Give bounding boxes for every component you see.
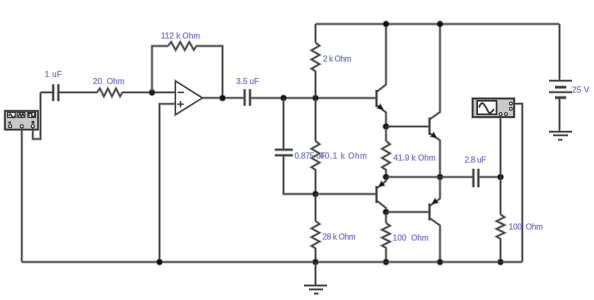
capacitor C3 0.875 uF (275, 150, 293, 156)
resistor R2 112 k Ohm feedback (168, 42, 196, 50)
junction: node B (312, 190, 320, 198)
wire: feedback right riser to output node (196, 46, 223, 98)
junction: ground rail at R7 (382, 258, 390, 266)
label R5: 28 k Ohm (323, 232, 356, 241)
svg-text:1 uF: 1 uF (45, 70, 62, 79)
svg-text:112 k Ohm: 112 k Ohm (161, 32, 200, 41)
wire: op-amp non-inverting input to ground rail (160, 104, 176, 262)
wire: R6 to mid node (385, 169, 388, 177)
op-amp U1 (176, 81, 203, 114)
resistor R8 100 Ohm load (497, 215, 505, 239)
wire: emitter output node to C4 (440, 176, 473, 179)
junction: emitter output node (436, 173, 444, 181)
transistor Q2 NPN (430, 24, 441, 177)
wire: C4 to scope node (478, 176, 500, 179)
label R7: 100 Ohm (393, 234, 429, 243)
junction: scope node (497, 173, 505, 181)
resistor R1 20 Ohm (97, 88, 122, 96)
wire: Q3 collector node to Q4 base (386, 211, 430, 214)
transistor Q3 PNP (377, 177, 387, 212)
resistor R6 41.9 k Ohm (382, 141, 390, 170)
label C1: 1 uF (45, 70, 62, 79)
function generator XFG1 (5, 111, 38, 130)
wire: C2 to Q1 base (250, 97, 377, 100)
label R1: 20 Ohm (93, 77, 125, 86)
wire: input row to C1 (41, 91, 54, 94)
wire: R7 to ground rail (385, 248, 388, 263)
wire: node B down to R5 (314, 194, 317, 221)
wire: scope right terminal to ground rail (514, 104, 522, 262)
wire: FG common terminal to ground rail (20, 128, 23, 262)
label V1: 25 V (572, 85, 590, 94)
ground symbol GND1 (304, 262, 327, 294)
label R4: 40.1 k Ohm (320, 152, 367, 161)
resistor R3 2 k Ohm (312, 43, 320, 72)
label C3: 0.875 uF (295, 152, 326, 161)
wire: R3 to signal node (314, 71, 317, 98)
resistor R5 28 k Ohm (312, 221, 320, 248)
wire: R1 to op-amp inverting input (122, 91, 176, 94)
junction: node at R3/R4 tap (312, 94, 320, 102)
label C4: 2.8 uF (465, 155, 487, 164)
svg-text:2 k Ohm: 2 k Ohm (323, 54, 352, 63)
wire: rail down to R3 (314, 24, 317, 43)
wire: R5 to ground rail (314, 248, 317, 262)
resistor R4 40.1 k Ohm (312, 141, 320, 170)
resistor R7 100 Ohm (382, 223, 390, 248)
transistor Q4 PNP (430, 177, 441, 262)
wire: mid node to emitter output node (386, 176, 440, 179)
label C2: 3.5 uF (236, 77, 259, 86)
svg-text:3.5 uF: 3.5 uF (236, 77, 259, 86)
wire: C3 top riser (282, 98, 285, 149)
junction: ground rail at Q4 collector (436, 258, 444, 266)
wire: scope probe down to scope node (499, 117, 502, 177)
svg-text:0.875 uF: 0.875 uF (295, 152, 326, 161)
svg-text:25 V: 25 V (572, 85, 590, 94)
label R2: 112 k Ohm (161, 32, 200, 41)
wire: R8 to ground rail (499, 239, 502, 263)
svg-text:20 Ohm: 20 Ohm (93, 77, 125, 86)
wire: Q1 emitter node to Q2 base (386, 125, 430, 128)
capacitor C2 3.5 uF (245, 89, 250, 106)
junction: ground rail at R5 (312, 258, 320, 266)
wire: FG minus terminal jog up to input row (33, 92, 41, 139)
junction: Q1 emitter node (382, 123, 390, 131)
wire: feedback left riser (152, 46, 168, 92)
transistor Q1 NPN (377, 24, 387, 127)
wire: op-amp output to C2 (202, 96, 244, 99)
wire: scope node down to R8 (499, 177, 502, 215)
wire: bottom ground rail (22, 261, 523, 264)
junction: top rail at Q1 collector (382, 20, 390, 28)
label R8: 100 Ohm (509, 222, 543, 231)
junction: Q3 collector node (382, 208, 390, 216)
battery V1 25 V (549, 24, 572, 132)
wire: R4 to node B (314, 169, 317, 194)
junction: output node (219, 94, 227, 102)
junction: ground rail at R8 (497, 258, 505, 266)
capacitor C1 1 uF (53, 84, 58, 101)
svg-text:100 Ohm: 100 Ohm (509, 222, 543, 231)
junction: node at C3 tap (280, 94, 288, 102)
junction: ground rail at op-amp leg (156, 258, 164, 266)
label R6: 41.9 k Ohm (394, 154, 436, 163)
svg-text:40.1 k Ohm: 40.1 k Ohm (320, 152, 367, 161)
svg-text:100 Ohm: 100 Ohm (393, 234, 429, 243)
wire: signal node down to R4 (314, 98, 317, 141)
svg-text:41.9 k Ohm: 41.9 k Ohm (394, 154, 436, 163)
wire: C3 bottom to node B (284, 156, 316, 194)
capacitor C4 2.8 uF (473, 169, 478, 187)
svg-text:28 k Ohm: 28 k Ohm (323, 232, 356, 241)
wire: top supply rail (316, 23, 560, 26)
junction: inverting input node (148, 89, 156, 97)
junction: mid node (382, 173, 390, 181)
junction: top rail at Q2 collector (436, 20, 444, 28)
ground symbol GND2 (549, 132, 572, 140)
wire: node B to Q3 base (316, 193, 377, 196)
wire: node down to R7 (385, 212, 388, 223)
label R3: 2 k Ohm (323, 54, 352, 63)
wire: C1 to R1 (58, 91, 97, 94)
svg-text:2.8 uF: 2.8 uF (465, 155, 487, 164)
wire: node down to R6 (385, 127, 388, 142)
oscilloscope XSC1 (473, 99, 514, 117)
